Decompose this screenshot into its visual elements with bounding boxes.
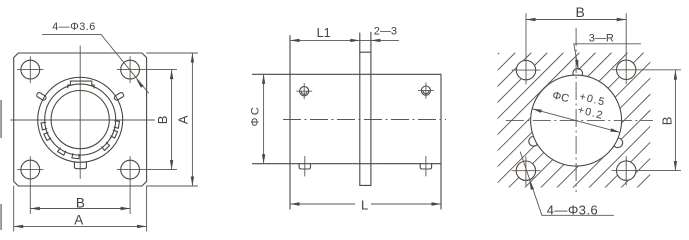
dimension L (side view): [290, 198, 441, 213]
scan artifact left edge upper: [0, 100, 2, 138]
svg-text:A: A: [176, 115, 191, 124]
svg-text:L: L: [361, 198, 368, 213]
svg-text:B: B: [155, 116, 170, 125]
dimension L1 and label 2-3 (side view): [290, 25, 399, 42]
svg-text:B: B: [76, 196, 85, 211]
shell inner circle (front view): [51, 91, 109, 149]
bayonet pin right (front view): [114, 92, 125, 101]
centerline (side view): [283, 119, 446, 121]
flange plate (side view): [360, 32, 371, 185]
svg-text:2—3: 2—3: [374, 25, 397, 37]
mounting hole top-left (front view): [18, 57, 44, 83]
bottom mounting tab (front view): [74, 162, 86, 169]
panel hole bottom-left (panel cutout view): [512, 157, 540, 186]
mounting hole bottom-left (front view): [18, 157, 44, 214]
coupling ring circle (front view): [45, 84, 116, 155]
label 4-PHI3.6 with leader (front view): [42, 21, 148, 93]
body outline (side view): [253, 36, 442, 210]
vertical centerline (front view): [79, 46, 81, 179]
ratchet teeth on coupling ring (front view): [41, 121, 119, 159]
polarization key at top (front view): [68, 81, 94, 88]
bayonet pin left (front view): [36, 92, 47, 101]
coupling nut outer circle (front view): [38, 77, 123, 162]
svg-text:B: B: [659, 117, 674, 126]
dimension PHI-C diagonal with tolerance (panel cutout view): [532, 90, 620, 133]
dimension PHI-C (side view): [250, 74, 266, 163]
svg-text:B: B: [576, 4, 585, 20]
horizontal centerline (panel cutout view): [506, 120, 653, 122]
bottom screw boss left (side view): [299, 157, 310, 177]
svg-text:L1: L1: [317, 26, 331, 40]
dimension A bottom (front view): [14, 186, 147, 231]
svg-text:3—R: 3—R: [589, 32, 614, 44]
svg-text:A: A: [74, 213, 83, 228]
dimension B right side (front view): [155, 70, 174, 170]
screw hole left (side view): [297, 84, 312, 99]
dimension B bottom (front view): [30, 196, 130, 211]
panel hole top-left (panel cutout view): [512, 14, 540, 85]
3-R keyway bumps on cutout circle (panel cutout view): [529, 69, 623, 148]
panel hole top-right (panel cutout view): [612, 14, 680, 84]
scan artifact left edge lower: [0, 204, 2, 230]
mounting hole bottom-right (front view): [117, 157, 176, 214]
svg-text:4—Φ3.6: 4—Φ3.6: [52, 21, 95, 33]
label 4-PHI3.6 with leader (panel cutout view): [520, 152, 613, 217]
svg-text:ΦC: ΦC: [250, 105, 262, 127]
label 3-R with leader (panel cutout view): [574, 32, 641, 69]
vertical centerline (panel cutout view): [575, 28, 577, 192]
dimension B right (panel cutout view): [659, 70, 677, 171]
panel cutout circle PHI-C (panel cutout view): [531, 75, 622, 166]
flange square outline (front view): [14, 53, 147, 186]
dimension B top (panel cutout view): [526, 4, 626, 21]
bottom screw boss right (side view): [420, 157, 431, 177]
mounting hole top-right (front view): [117, 57, 176, 83]
horizontal centerline (front view): [11, 119, 155, 121]
panel hole bottom-right (panel cutout view): [612, 157, 680, 186]
screw hole right (side view): [418, 83, 433, 98]
dimension A right side (front view): [147, 53, 198, 186]
